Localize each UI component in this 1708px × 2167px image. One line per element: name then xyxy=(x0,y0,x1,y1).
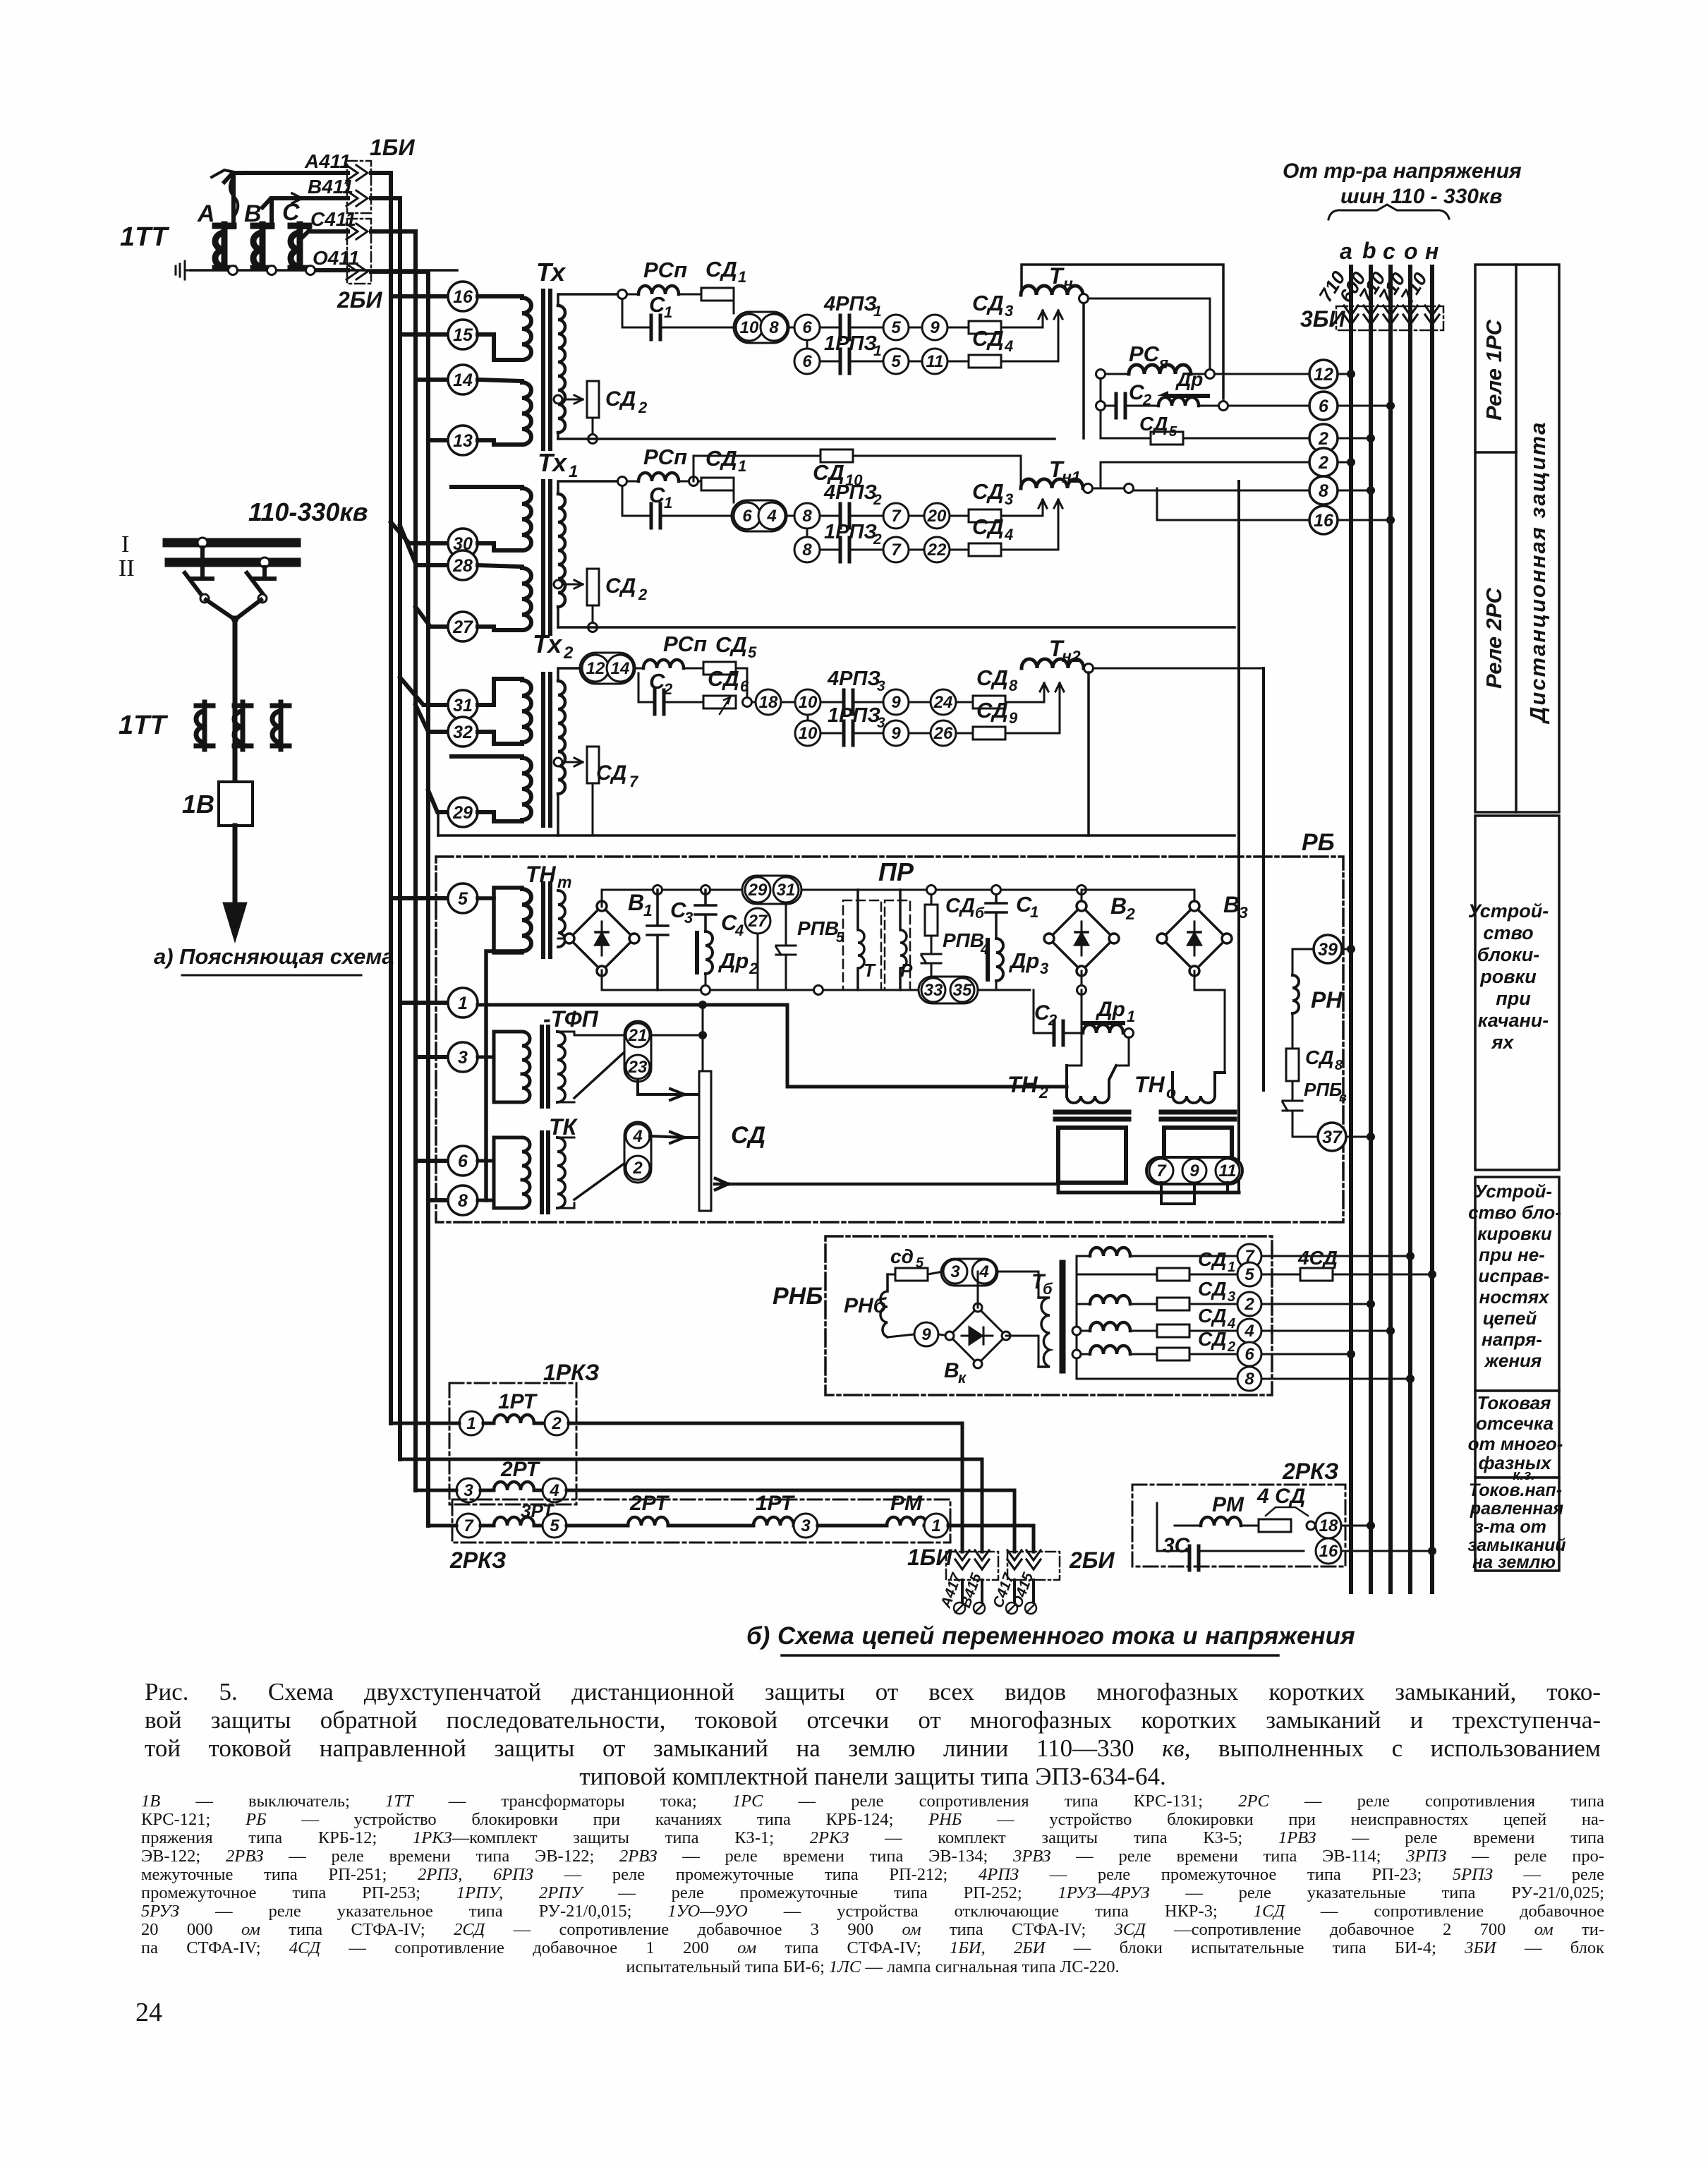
hook on А411 start xyxy=(212,170,241,177)
svg-text:32: 32 xyxy=(453,723,473,742)
test block 2БИ xyxy=(1007,1552,1060,1580)
terminal 6b xyxy=(794,349,820,374)
node xyxy=(701,986,710,995)
svg-text:РПВ: РПВ xyxy=(943,929,984,951)
terminal 2 xyxy=(1309,424,1338,452)
wire xyxy=(684,668,703,670)
terminal 4 xyxy=(543,1478,567,1502)
node feeder xyxy=(231,616,238,623)
svg-text:я: я xyxy=(1158,354,1168,372)
svg-text:I: I xyxy=(121,531,129,557)
svg-text:3С: 3С xyxy=(1163,1534,1191,1557)
terminal 3 xyxy=(456,1478,480,1502)
crossing to 30 xyxy=(391,522,448,543)
terminal 9b xyxy=(883,720,909,746)
node СД10 xyxy=(689,477,698,486)
svg-text:3: 3 xyxy=(1040,960,1048,977)
jack 31 xyxy=(773,877,799,903)
wire xyxy=(820,549,840,551)
tap to 6 xyxy=(416,1159,448,1163)
svg-text:1РПЗ: 1РПЗ xyxy=(828,704,880,727)
svg-text:12: 12 xyxy=(586,659,605,678)
svg-text:СД: СД xyxy=(605,574,636,598)
svg-text:СД: СД xyxy=(731,1122,765,1149)
table label устройство блокировки при качаниях xyxy=(1468,900,1549,1053)
left rail xyxy=(1100,378,1102,438)
terminal 3 xyxy=(448,1042,478,1072)
terminal 9 xyxy=(883,689,909,715)
svg-text:Токовая: Токовая xyxy=(1477,1392,1551,1413)
row 6: coil + СД2 xyxy=(1090,1346,1130,1354)
wire 2 run right xyxy=(569,1423,962,1552)
svg-text:33: 33 xyxy=(924,981,943,1000)
svg-text:7: 7 xyxy=(891,507,902,526)
tap to 14 xyxy=(416,378,448,382)
ТНт primary xyxy=(478,888,531,953)
CT A incoming squiggle xyxy=(230,178,238,215)
В2 bottom drop xyxy=(1081,971,1083,990)
node xyxy=(1096,370,1106,379)
svg-text:1: 1 xyxy=(873,303,882,320)
wire xyxy=(752,701,756,704)
svg-text:2: 2 xyxy=(873,492,882,508)
ТНт secondary xyxy=(558,891,565,947)
wire 8 to bus b xyxy=(1338,490,1371,492)
resistor СД4 xyxy=(969,355,1001,368)
svg-text:СД: СД xyxy=(1198,1305,1226,1327)
wire 8 row xyxy=(1093,488,1309,490)
svg-text:ПР: ПР xyxy=(878,857,914,886)
wire xyxy=(820,361,840,363)
svg-text:6: 6 xyxy=(742,507,752,526)
wire xyxy=(909,515,924,517)
second row vertical xyxy=(806,529,808,537)
node rail xyxy=(1072,1327,1081,1335)
terminal 9 xyxy=(922,315,947,340)
svg-text:РПВ: РПВ xyxy=(797,917,839,939)
jack capsule 33 35 xyxy=(919,977,978,1003)
svg-text:РМ: РМ xyxy=(890,1492,923,1515)
capacitor С3 xyxy=(647,890,668,990)
second row vertical xyxy=(807,715,809,720)
terminal 6 xyxy=(1237,1342,1261,1366)
coil 2РТ xyxy=(628,1517,668,1526)
bridge right to Тб xyxy=(1006,1336,1038,1367)
wire xyxy=(1292,1013,1294,1049)
wire 8 row xyxy=(1261,1378,1410,1380)
wire 4 row xyxy=(1261,1330,1391,1332)
crossing to 28 xyxy=(400,526,448,565)
svg-text:29: 29 xyxy=(748,881,768,900)
svg-text:Т: Т xyxy=(864,960,876,981)
ТН2 secondary loop xyxy=(1058,1128,1126,1183)
svg-text:4: 4 xyxy=(549,1481,559,1500)
svg-text:22: 22 xyxy=(927,541,947,560)
svg-text:5: 5 xyxy=(916,1255,924,1271)
svg-text:2: 2 xyxy=(873,531,882,548)
bridge Вк xyxy=(945,1303,1010,1368)
svg-text:8: 8 xyxy=(1009,677,1018,694)
svg-text:ство бло-: ство бло- xyxy=(1468,1202,1561,1223)
svg-text:7: 7 xyxy=(464,1516,474,1535)
ТНо link from В3 xyxy=(1194,971,1225,1073)
jack 4 xyxy=(972,1260,996,1284)
svg-text:ровки: ровки xyxy=(1479,966,1537,987)
coil 1РТ xyxy=(483,1422,494,1425)
svg-text:В: В xyxy=(1223,892,1240,917)
channel3 bottom line xyxy=(438,834,1235,837)
wire С411 xyxy=(300,231,348,240)
wire 16 row xyxy=(1157,488,1309,520)
svg-text:2: 2 xyxy=(632,1159,643,1178)
jack 33 xyxy=(921,978,945,1002)
svg-text:10: 10 xyxy=(799,724,818,743)
svg-text:РНб: РНб xyxy=(844,1294,888,1317)
ТК primary lower xyxy=(522,1180,530,1208)
svg-text:4: 4 xyxy=(766,507,776,526)
terminal 32 xyxy=(448,717,478,747)
svg-text:при: при xyxy=(1496,988,1531,1009)
wire 6 to bus c xyxy=(1338,405,1391,407)
terminal 5 xyxy=(543,1514,567,1538)
capacitor С1 branch xyxy=(622,486,651,516)
lead to bridge xyxy=(558,938,569,940)
wire xyxy=(635,668,643,670)
svg-text:при не-: при не- xyxy=(1479,1244,1545,1265)
capacitor 1РПЗ3 xyxy=(844,721,853,745)
wire 2 row xyxy=(1261,1303,1371,1305)
Тх1 primary 1 xyxy=(452,487,531,550)
svg-text:16: 16 xyxy=(1314,511,1334,531)
jack pair capsule xyxy=(732,500,787,531)
tap to 27 xyxy=(416,607,448,627)
wire xyxy=(660,327,735,329)
wire xyxy=(947,361,969,363)
bridge В2 xyxy=(1081,890,1083,906)
node xyxy=(814,986,823,995)
row 2: coil + СД3 xyxy=(1090,1296,1130,1304)
svg-text:СД: СД xyxy=(1305,1046,1333,1068)
2БИ arrow О411 xyxy=(346,264,368,279)
svg-text:Устрой-: Устрой- xyxy=(1468,900,1549,922)
svg-text:Т: Т xyxy=(1049,263,1065,289)
svg-text:ностях: ностях xyxy=(1479,1286,1550,1308)
wire xyxy=(820,701,844,704)
svg-text:3: 3 xyxy=(950,1262,960,1281)
jack 11 xyxy=(1216,1159,1240,1183)
РПВ5 contact xyxy=(776,903,796,990)
svg-text:2: 2 xyxy=(1227,1339,1235,1355)
РПВ4 contact xyxy=(921,936,941,990)
svg-text:Др: Др xyxy=(1095,998,1125,1021)
svg-text:СД: СД xyxy=(705,257,737,282)
node CT A xyxy=(229,266,238,275)
ТН2 core xyxy=(1055,1110,1129,1115)
ТНо secondary loop xyxy=(1164,1128,1232,1157)
jack capsule 4 2 xyxy=(624,1122,651,1183)
С2 branch from rail xyxy=(1034,990,1054,1033)
node on bottom line xyxy=(588,623,598,632)
wire xyxy=(849,549,883,551)
svg-text:7: 7 xyxy=(629,773,639,790)
Тх1 secondary xyxy=(558,494,565,607)
terminal 15 xyxy=(448,320,478,349)
svg-text:8: 8 xyxy=(1335,1058,1343,1073)
wire О411 xyxy=(316,268,348,272)
svg-text:1: 1 xyxy=(664,494,672,512)
jack 9 xyxy=(1182,1159,1206,1183)
svg-text:4: 4 xyxy=(734,922,744,939)
table box устройство блокировки при неисправностях xyxy=(1475,1177,1559,1391)
crossing to 32 xyxy=(416,705,448,732)
svg-text:28: 28 xyxy=(452,556,473,576)
svg-text:Устрой-: Устрой- xyxy=(1474,1181,1552,1202)
svg-text:РСп: РСп xyxy=(663,632,707,656)
node xyxy=(927,886,936,895)
svg-text:1В: 1В xyxy=(182,790,214,819)
resistor СД1 xyxy=(701,478,734,490)
Тх core xyxy=(541,291,545,449)
wire 5 row xyxy=(1333,1274,1432,1276)
svg-text:5: 5 xyxy=(458,889,468,909)
svg-text:8: 8 xyxy=(458,1191,468,1211)
svg-text:а) Поясняющая схема: а) Поясняющая схема xyxy=(154,944,394,969)
terminal 7b xyxy=(883,537,909,562)
jack 29 xyxy=(745,877,770,903)
svg-text:2БИ: 2БИ xyxy=(1069,1547,1115,1573)
wire 39 to bus xyxy=(1342,948,1351,950)
РБ row top line xyxy=(602,890,1030,907)
terminal 8b xyxy=(794,537,820,562)
wire xyxy=(787,515,794,517)
svg-text:СД: СД xyxy=(1198,1278,1226,1300)
dashed box Т xyxy=(843,900,881,990)
wire jog С411 xyxy=(371,229,416,234)
ТН2 secondary out xyxy=(1058,1183,1239,1193)
svg-text:СД: СД xyxy=(972,479,1004,504)
wire 16 to bus xyxy=(1341,1550,1432,1552)
wire xyxy=(947,327,969,329)
РБ dash-dot box xyxy=(436,857,1343,1222)
svg-text:4РПЗ: 4РПЗ xyxy=(823,481,877,504)
svg-text:2: 2 xyxy=(1244,1295,1254,1314)
svg-text:8: 8 xyxy=(1319,481,1328,501)
svg-text:РБ: РБ xyxy=(1302,829,1335,856)
wire up to Тн2 xyxy=(1005,683,1064,733)
second row vertical xyxy=(806,340,808,349)
wire 2 to bus a xyxy=(1338,461,1351,464)
Тн right node xyxy=(1079,294,1089,303)
1БИ arrow А417 xyxy=(955,1550,969,1569)
terminal 24 xyxy=(931,689,956,715)
РН branch: node 39 xyxy=(1314,935,1342,963)
node xyxy=(1219,402,1228,411)
jack capsule 29 31 xyxy=(742,876,801,904)
svg-text:СД: СД xyxy=(1198,1248,1226,1270)
busbar II xyxy=(169,558,296,567)
svg-text:1: 1 xyxy=(931,1516,940,1535)
feedback line to СД xyxy=(715,1178,1057,1190)
jack 6 xyxy=(734,502,761,529)
wire xyxy=(679,294,701,296)
svg-text:н2: н2 xyxy=(1062,647,1081,665)
svg-text:О411: О411 xyxy=(313,247,359,269)
jack 7 xyxy=(1149,1159,1173,1183)
3БИ arrow c xyxy=(1383,306,1398,325)
terminal 18 xyxy=(756,689,781,715)
CT C winding xyxy=(291,224,316,268)
svg-text:9: 9 xyxy=(891,693,901,712)
coil 1РТ xyxy=(753,1517,794,1526)
coil Тн xyxy=(1021,286,1083,295)
jack 10 xyxy=(736,314,763,341)
Тх tap node xyxy=(554,395,562,404)
svg-text:В: В xyxy=(1110,893,1127,919)
svg-text:б: б xyxy=(975,905,985,922)
resistor СД6 xyxy=(931,890,933,905)
terminal 14 xyxy=(448,365,478,394)
terminal 5 xyxy=(1237,1262,1261,1286)
svg-text:СД: СД xyxy=(605,387,636,411)
terminal 2 xyxy=(545,1411,569,1435)
row 7: coil xyxy=(1090,1248,1130,1256)
arrow to СД2 xyxy=(563,580,583,588)
terminal 7 xyxy=(883,503,909,529)
svg-text:27: 27 xyxy=(452,617,473,637)
svg-text:жения: жения xyxy=(1484,1350,1542,1371)
svg-text:16: 16 xyxy=(1319,1542,1338,1561)
tap to 15 xyxy=(400,332,448,337)
terminal 29 xyxy=(448,797,478,827)
svg-text:c: c xyxy=(1383,239,1395,264)
link to В2 top xyxy=(1030,889,1082,891)
ТФП primary rail xyxy=(478,1032,522,1102)
wire 21 xyxy=(650,1005,703,1071)
svg-text:н1: н1 xyxy=(1062,468,1081,486)
svg-text:6: 6 xyxy=(802,352,812,371)
Тх2 primary 1 xyxy=(478,679,531,744)
resistor СД7 xyxy=(587,747,599,783)
terminal 6 xyxy=(448,1146,478,1176)
node xyxy=(1125,1029,1134,1038)
resistor СД10 xyxy=(820,449,853,462)
svg-text:В: В xyxy=(944,1359,959,1382)
svg-text:В: В xyxy=(628,890,644,915)
svg-text:11: 11 xyxy=(1219,1161,1237,1181)
svg-text:4 СД: 4 СД xyxy=(1256,1485,1305,1508)
capacitor 4РПЗ2 xyxy=(840,504,849,528)
ТК diagonal xyxy=(574,1163,625,1200)
resistor СД4 xyxy=(969,543,1001,556)
resistor СД3 xyxy=(969,509,1001,522)
capacitor С1 xyxy=(986,890,1007,938)
svg-text:1РКЗ: 1РКЗ xyxy=(543,1360,599,1385)
line arrow down xyxy=(226,826,244,935)
svg-text:18: 18 xyxy=(759,693,778,712)
3БИ arrow н xyxy=(1425,306,1439,325)
svg-text:СД: СД xyxy=(705,446,737,471)
test block 1БИ xyxy=(347,161,371,213)
wire xyxy=(668,1524,753,1528)
Тх2 secondary xyxy=(558,681,565,794)
wire 1 run right xyxy=(948,1526,1034,1552)
svg-text:20: 20 xyxy=(927,507,947,526)
wire xyxy=(627,481,638,483)
row 8 xyxy=(1077,1378,1236,1380)
svg-text:21: 21 xyxy=(628,1026,648,1045)
svg-text:1БИ: 1БИ xyxy=(370,135,415,160)
wire jog О411 xyxy=(371,270,428,274)
svg-text:b: b xyxy=(1362,238,1376,263)
bus wire b xyxy=(1369,267,1373,1592)
terminal 26 xyxy=(931,720,956,746)
2РКЗ dash-dot box xyxy=(452,1499,950,1543)
capacitor 1РПЗ2 xyxy=(840,538,849,562)
jack pair capsule xyxy=(734,312,789,343)
svg-text:11: 11 xyxy=(926,352,944,371)
terminal 4 xyxy=(1237,1319,1261,1343)
svg-text:110-330кв: 110-330кв xyxy=(248,497,368,526)
CT phase A symbol xyxy=(196,702,213,749)
underline xyxy=(182,974,361,977)
capacitor С2 xyxy=(1054,1021,1063,1045)
svg-text:сд: сд xyxy=(890,1245,914,1267)
jack 21 xyxy=(626,1023,650,1047)
svg-text:2РКЗ: 2РКЗ xyxy=(1282,1459,1338,1484)
svg-text:3: 3 xyxy=(877,678,885,694)
СД10 wire to Тн1 xyxy=(853,456,1021,488)
svg-text:СД: СД xyxy=(1198,1328,1226,1350)
resistor СД5 xyxy=(703,662,736,675)
svg-text:10: 10 xyxy=(740,318,759,337)
terminal 5 xyxy=(883,315,909,340)
wire xyxy=(956,701,973,704)
svg-text:Др: Др xyxy=(1175,368,1203,390)
svg-text:н: н xyxy=(1063,274,1073,293)
tap to 13 xyxy=(428,438,448,442)
feeder vertical wire xyxy=(233,618,238,782)
svg-text:1ТТ: 1ТТ xyxy=(119,711,168,740)
Тх2 primary 2 xyxy=(452,756,531,821)
link В2 В3 top xyxy=(1082,889,1194,891)
svg-text:1РПЗ: 1РПЗ xyxy=(824,521,877,543)
ТНо primary xyxy=(1173,1073,1225,1103)
jack capsule 21 23 xyxy=(624,1021,651,1082)
wire xyxy=(909,732,931,735)
capacitor 1РПЗ1 xyxy=(840,349,849,373)
svg-text:9: 9 xyxy=(930,318,940,337)
ТК secondary xyxy=(557,1137,565,1208)
Тб core xyxy=(1060,1263,1066,1370)
choke Др3 xyxy=(996,938,1003,981)
terminal 1 xyxy=(459,1411,483,1435)
svg-text:4: 4 xyxy=(1004,337,1013,355)
1БИ arrow В411 xyxy=(346,191,368,206)
tap to 1 xyxy=(400,1001,448,1005)
wire 2 row xyxy=(1101,462,1309,488)
wire 6 row xyxy=(1261,1353,1351,1356)
jack pair capsule xyxy=(580,653,635,684)
Тх2 secondary top lead xyxy=(558,668,580,681)
РНБ dash-dot box xyxy=(825,1236,1272,1395)
slider arrow xyxy=(1266,1507,1308,1516)
Тх1 core xyxy=(541,481,545,634)
svg-text:1: 1 xyxy=(1127,1008,1135,1025)
wire РНб bottom xyxy=(888,1334,914,1337)
svg-text:т: т xyxy=(557,873,571,891)
svg-text:13: 13 xyxy=(453,431,473,451)
wire СД5 right xyxy=(736,668,747,702)
